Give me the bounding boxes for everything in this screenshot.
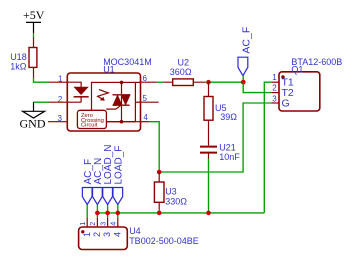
svg-text:2: 2: [88, 222, 97, 226]
svg-text:3: 3: [58, 114, 63, 123]
wire U1 pin 4 stub: [141, 121, 150, 123]
svg-text:U4: U4: [129, 226, 141, 236]
node junction U21 bottom: [206, 211, 211, 216]
Q1 pin numbers: [272, 73, 277, 103]
svg-text:U2: U2: [178, 58, 190, 68]
svg-text:360Ω: 360Ω: [170, 67, 192, 77]
wire Q1 pin2 stub: [271, 92, 279, 94]
svg-text:5: 5: [143, 94, 148, 103]
wire pin 1 stub: [49, 81, 67, 83]
wire Q1 pin3 stub: [271, 102, 279, 104]
svg-text:3: 3: [102, 232, 112, 237]
optocoupler U1 MOC3041M body: [67, 73, 140, 131]
U1 inner sub-block box: [92, 82, 136, 121]
wire Q1 pin1 stub: [271, 81, 279, 83]
connector U4 body: [79, 227, 128, 250]
node junction triac top: [120, 81, 124, 85]
resistor U5: [204, 82, 213, 145]
svg-text:U1: U1: [103, 64, 115, 74]
node junction U4 pin2: [95, 211, 100, 216]
label U18 1kΩ: [10, 52, 27, 72]
wire pin 3 stub: [48, 121, 67, 123]
svg-text:4: 4: [109, 222, 118, 226]
ground: [20, 102, 46, 130]
U4 pin numbers: [78, 222, 118, 226]
svg-text:G: G: [282, 98, 290, 110]
wire AC_F to Q1 pin2: [243, 82, 271, 92]
wire T1 corner net: [264, 82, 271, 213]
svg-text:U3: U3: [165, 187, 177, 197]
resistor U2: [163, 79, 205, 86]
svg-text:AC_F: AC_F: [240, 27, 252, 54]
net flag LOAD_N: [103, 144, 114, 204]
svg-text:6: 6: [143, 74, 148, 83]
svg-text:GND: GND: [20, 117, 46, 131]
net flag LOAD_F: [113, 146, 124, 205]
U1 internal pin 5 wire: [135, 101, 140, 103]
svg-text:Circuit: Circuit: [81, 123, 98, 129]
wire pin6 to U2: [157, 81, 163, 83]
svg-text:Q1: Q1: [291, 64, 303, 74]
wire gate net: [159, 103, 271, 172]
svg-text:2: 2: [272, 84, 277, 93]
U1 pin numbers right: [143, 74, 149, 122]
svg-text:TB002-500-04BE: TB002-500-04BE: [129, 236, 199, 246]
wire pin4 to U3 node: [150, 122, 159, 172]
U1 internal pin 4 wire: [106, 121, 140, 123]
label MOC3041M U1: [103, 57, 152, 74]
svg-text:LOAD_F: LOAD_F: [113, 146, 124, 185]
wire flag2 to U4 pin2: [96, 205, 98, 218]
svg-text:3: 3: [98, 222, 107, 226]
U1 internal triac: [106, 82, 130, 121]
wire +5V to U18: [33, 33, 35, 37]
zero crossing circuit box: [77, 110, 106, 128]
wire bottom rail: [97, 212, 264, 214]
power +5V: [23, 8, 45, 33]
node junction U2/U5: [206, 80, 211, 85]
U4 pin stubs: [87, 218, 118, 227]
node junction U4 pin4: [116, 211, 121, 216]
svg-text:1: 1: [82, 232, 92, 237]
svg-text:U21: U21: [219, 142, 236, 152]
wire U21 to bottom rail: [208, 159, 210, 213]
svg-text:1kΩ: 1kΩ: [10, 62, 27, 72]
svg-text:2: 2: [92, 232, 102, 237]
svg-text:10nF: 10nF: [219, 152, 240, 162]
resistor U18: [29, 37, 37, 77]
capacitor U21: [200, 147, 217, 159]
label U5 39Ω: [215, 103, 237, 122]
svg-text:39Ω: 39Ω: [220, 112, 237, 122]
svg-text:+5V: +5V: [23, 8, 45, 22]
U1 internal LED: [67, 82, 88, 102]
svg-text:3: 3: [272, 95, 277, 104]
resistor U3: [154, 172, 164, 213]
Q1 pin names: [282, 77, 294, 110]
label U21 10nF: [219, 142, 240, 162]
U4 blue pin numbers: [82, 232, 123, 237]
wire flag4 to U4 pin4: [117, 205, 119, 218]
U1 light arrow: [98, 90, 109, 101]
net flag AC_N: [93, 158, 104, 205]
svg-text:4: 4: [143, 113, 148, 122]
U1 internal pin 6 wire: [135, 81, 140, 83]
node junction U4 pin3: [105, 211, 110, 216]
U4 pin-1 dot: [81, 230, 84, 233]
label U2 360Ω: [170, 58, 192, 78]
node junction triac bottom: [120, 120, 124, 124]
Q1 pin-1 dot: [281, 75, 284, 78]
svg-text:2: 2: [58, 95, 63, 104]
U1 pin numbers left: [58, 75, 64, 123]
node junction U3 bottom: [157, 211, 162, 216]
wire GND to U1 pin 2: [34, 101, 50, 103]
svg-text:1: 1: [78, 222, 87, 226]
label BTA12-600B Q1: [291, 57, 342, 74]
svg-text:1: 1: [58, 75, 63, 84]
wire U2 to AC_F junction: [205, 81, 243, 83]
svg-text:330Ω: 330Ω: [165, 196, 187, 206]
wire U1 pin 5 stub: [141, 101, 159, 103]
wire flag1 to U4 pin1: [86, 205, 88, 218]
node junction gate/U3: [157, 170, 162, 175]
label U4 TB002-500-04BE: [129, 226, 199, 246]
wire pin 2 stub: [49, 101, 67, 103]
svg-text:4: 4: [112, 232, 122, 237]
svg-text:U18: U18: [10, 52, 27, 62]
label U3 330Ω: [165, 187, 187, 207]
triac Q1 BTA12-600B body: [279, 72, 320, 111]
wire U18 to U1 pin 1: [34, 78, 50, 83]
net flag AC_F bottom: [82, 159, 93, 205]
wire U1 pin 6 stub: [141, 81, 158, 83]
wire flag3 to U4 pin3: [107, 205, 109, 218]
svg-text:1: 1: [272, 73, 277, 82]
net flag AC_F top: [238, 27, 252, 82]
node junction AC_F: [241, 80, 246, 85]
